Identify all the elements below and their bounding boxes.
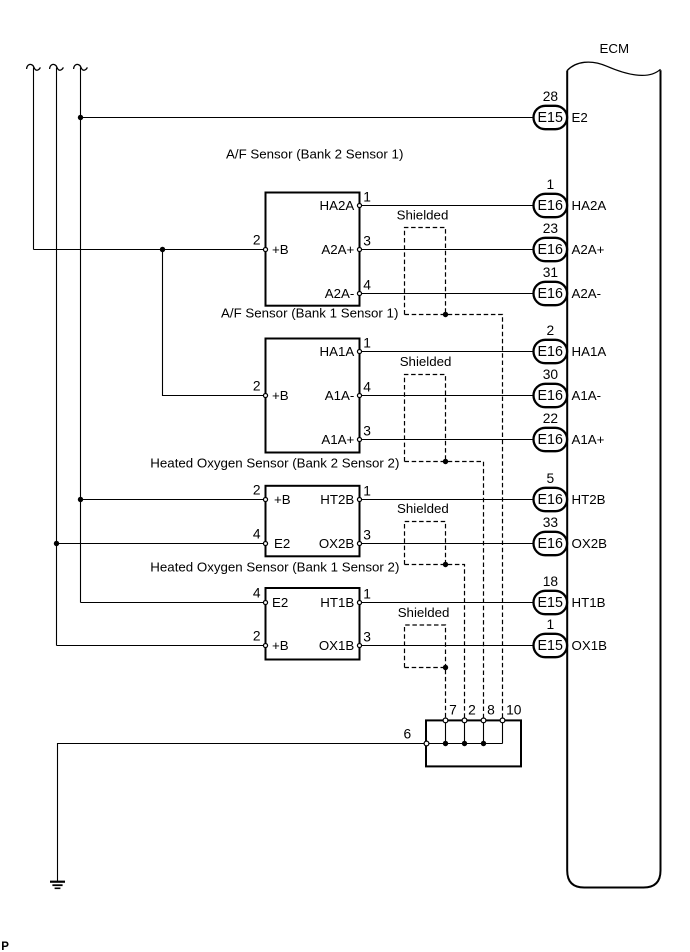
svg-text:E16: E16 xyxy=(537,344,562,360)
svg-text:OX1B: OX1B xyxy=(319,638,355,653)
svg-text:1: 1 xyxy=(547,177,555,192)
svg-text:HA2A: HA2A xyxy=(572,198,607,213)
ECM torn-top wavy edge xyxy=(567,62,660,75)
wire HA1A xyxy=(360,351,534,353)
pin circle HT1B xyxy=(357,600,361,604)
pin circle E2 B1S2 xyxy=(263,600,267,604)
shield box 1 (A/F B2S1) xyxy=(405,228,446,315)
connector pin 8 stub xyxy=(483,720,485,743)
svg-text:E16: E16 xyxy=(537,198,562,214)
svg-text:3: 3 xyxy=(363,234,371,249)
svg-text:A2A+: A2A+ xyxy=(321,242,354,257)
ECM pin E16-22 A1A+ xyxy=(534,411,605,451)
pin circle A1A- xyxy=(357,393,361,397)
node bus/pin8 xyxy=(481,741,486,746)
ECM body outline xyxy=(567,70,660,887)
shield 3 drain run xyxy=(405,565,465,721)
svg-text:HT1B: HT1B xyxy=(320,595,354,610)
ECM pin E16-23 A2A+ xyxy=(534,221,605,261)
svg-text:E2: E2 xyxy=(572,110,588,125)
pin circle HT2B xyxy=(357,497,361,501)
svg-text:5: 5 xyxy=(547,471,555,486)
svg-text:Shielded: Shielded xyxy=(400,354,452,369)
svg-text:A1A-: A1A- xyxy=(572,388,602,403)
off-page squiggle wire 3 xyxy=(74,64,88,70)
svg-text:A1A+: A1A+ xyxy=(321,432,354,447)
svg-text:HA1A: HA1A xyxy=(572,344,607,359)
svg-text:A2A-: A2A- xyxy=(572,286,602,301)
A/F sensor (Bank 1 Sensor 1) box xyxy=(266,339,360,453)
svg-text:A1A-: A1A- xyxy=(325,388,355,403)
shield 1 drain run xyxy=(405,315,503,721)
A/F sensor (Bank 2 Sensor 1) box xyxy=(266,193,360,306)
connector pin 10 stub xyxy=(502,720,504,743)
shield junction connector box xyxy=(426,720,521,766)
ECM pin E16-1 HA2A xyxy=(534,177,607,217)
pin circle +B B1S2 xyxy=(263,643,267,647)
wire W3 vertical xyxy=(80,68,82,603)
connector pin 7 xyxy=(443,718,448,723)
ECM pin E16-33 OX2B xyxy=(534,515,608,555)
wire A2A+ xyxy=(360,249,534,251)
svg-text:Heated Oxygen Sensor (Bank 2 S: Heated Oxygen Sensor (Bank 2 Sensor 2) xyxy=(150,456,399,471)
Heated oxygen sensor (Bank 2 Sensor 2) box xyxy=(266,486,360,557)
svg-text:E15: E15 xyxy=(537,638,562,654)
node junction W3/E2 row xyxy=(78,115,83,120)
svg-text:HT1B: HT1B xyxy=(572,595,606,610)
svg-text:E16: E16 xyxy=(537,286,562,302)
node shield 3 drain xyxy=(443,562,448,567)
wire W2 vertical xyxy=(56,68,58,646)
node bus/pin7 xyxy=(443,741,448,746)
svg-text:+B: +B xyxy=(274,492,291,507)
connector pin 2 xyxy=(462,718,467,723)
node bus/pin2 xyxy=(462,741,467,746)
svg-text:A2A+: A2A+ xyxy=(572,242,605,257)
ECM pin E15-28 E2 xyxy=(534,89,588,129)
shield 2 drain run xyxy=(405,462,484,721)
svg-text:P: P xyxy=(1,941,9,952)
connector pin 7 stub xyxy=(445,720,447,743)
svg-text:HT2B: HT2B xyxy=(572,492,606,507)
shield 4 drain run xyxy=(405,668,446,721)
ECM pin E15-1 OX1B xyxy=(534,617,608,657)
svg-text:ECM: ECM xyxy=(600,41,630,56)
wire HT2B xyxy=(360,499,534,501)
svg-text:HT2B: HT2B xyxy=(320,492,354,507)
svg-text:4: 4 xyxy=(253,586,261,601)
svg-text:A2A-: A2A- xyxy=(325,286,355,301)
pin circle OX2B xyxy=(357,541,361,545)
pin circle +B B1S1 xyxy=(263,393,267,397)
off-page squiggle wire 2 xyxy=(50,64,64,70)
wire E2 row to ECM E15 xyxy=(81,117,534,119)
svg-text:1: 1 xyxy=(363,336,371,351)
svg-text:E16: E16 xyxy=(537,388,562,404)
svg-text:Shielded: Shielded xyxy=(398,605,450,620)
node junction +B branch xyxy=(160,247,165,252)
svg-text:E15: E15 xyxy=(537,110,562,126)
ECM pin E15-18 HT1B xyxy=(534,574,606,614)
svg-text:OX2B: OX2B xyxy=(319,536,355,551)
pin circle A2A- xyxy=(357,291,361,295)
pin circle A1A+ xyxy=(357,437,361,441)
svg-text:1: 1 xyxy=(363,587,371,602)
svg-text:HA1A: HA1A xyxy=(320,344,355,359)
wire +B row to A/F sensor B2S1 xyxy=(34,249,266,251)
wire +B row HO2S B2S2 xyxy=(81,499,266,501)
svg-text:+B: +B xyxy=(272,388,289,403)
svg-text:A/F Sensor (Bank 1 Sensor 1): A/F Sensor (Bank 1 Sensor 1) xyxy=(221,306,398,321)
svg-text:33: 33 xyxy=(543,515,559,530)
wire A1A+ xyxy=(360,439,534,441)
shield box 3 (HO2S B2S2) xyxy=(405,522,446,565)
ECM pin E16-30 A1A- xyxy=(534,367,602,407)
svg-text:Shielded: Shielded xyxy=(397,501,449,516)
svg-text:8: 8 xyxy=(487,703,495,718)
svg-text:Shielded: Shielded xyxy=(397,208,449,223)
svg-text:Heated Oxygen Sensor (Bank 1 S: Heated Oxygen Sensor (Bank 1 Sensor 2) xyxy=(150,560,399,575)
svg-text:3: 3 xyxy=(363,630,371,645)
connector inner bus wire xyxy=(426,743,502,745)
wire E2 row HO2S B2S2 xyxy=(57,543,266,545)
svg-text:2: 2 xyxy=(253,483,261,498)
wire E2 row HO2S B1S2 xyxy=(81,602,266,604)
shield box 4 (HO2S B1S2) xyxy=(405,625,446,668)
svg-text:31: 31 xyxy=(543,265,558,280)
node junction W2/E2 HO2S B2S2 xyxy=(54,541,59,546)
pin circle E2 B2S2 xyxy=(263,541,267,545)
svg-text:28: 28 xyxy=(543,89,559,104)
svg-text:4: 4 xyxy=(363,380,371,395)
svg-text:3: 3 xyxy=(363,528,371,543)
shield box 2 (A/F B1S1) xyxy=(405,375,446,462)
pin circle HA1A xyxy=(357,349,361,353)
svg-text:E16: E16 xyxy=(537,536,562,552)
svg-text:23: 23 xyxy=(543,221,559,236)
pin circle HA2A xyxy=(357,203,361,207)
svg-text:6: 6 xyxy=(404,727,412,742)
svg-text:3: 3 xyxy=(363,424,371,439)
ECM pin E16-5 HT2B xyxy=(534,471,606,511)
svg-text:HA2A: HA2A xyxy=(320,198,355,213)
svg-text:2: 2 xyxy=(253,233,261,248)
svg-text:A1A+: A1A+ xyxy=(572,432,605,447)
wire HT1B xyxy=(360,602,534,604)
svg-text:OX1B: OX1B xyxy=(572,638,608,653)
pin circle +B B2S2 xyxy=(263,497,267,501)
svg-text:10: 10 xyxy=(506,703,522,718)
connector pin 6 xyxy=(424,741,429,746)
connector pin 10 xyxy=(500,718,505,723)
ground xyxy=(50,882,65,889)
wire +B branch down to A/F sensor B1S1 xyxy=(163,250,266,396)
svg-text:1: 1 xyxy=(363,484,371,499)
svg-text:2: 2 xyxy=(253,379,261,394)
svg-text:2: 2 xyxy=(468,703,476,718)
svg-text:1: 1 xyxy=(547,617,555,632)
svg-text:1: 1 xyxy=(363,190,371,205)
pin circle A2A+ xyxy=(357,247,361,251)
node shield 2 drain xyxy=(443,459,448,464)
svg-text:22: 22 xyxy=(543,411,558,426)
svg-text:18: 18 xyxy=(543,574,559,589)
svg-text:7: 7 xyxy=(449,703,457,718)
svg-text:E2: E2 xyxy=(272,595,288,610)
wire OX2B xyxy=(360,543,534,545)
connector pin 8 xyxy=(481,718,486,723)
svg-text:30: 30 xyxy=(543,367,559,382)
node shield 4 drain xyxy=(443,665,448,670)
svg-text:E16: E16 xyxy=(537,432,562,448)
svg-text:OX2B: OX2B xyxy=(572,536,608,551)
ECM pin E16-31 A2A- xyxy=(534,265,602,305)
svg-text:A/F Sensor (Bank 2 Sensor 1): A/F Sensor (Bank 2 Sensor 1) xyxy=(226,147,403,162)
svg-text:4: 4 xyxy=(363,278,371,293)
svg-text:2: 2 xyxy=(253,629,261,644)
node shield 1 drain xyxy=(443,312,448,317)
svg-text:4: 4 xyxy=(253,527,261,542)
wire W1 vertical (+B feed) xyxy=(33,68,35,250)
svg-text:E16: E16 xyxy=(537,492,562,508)
pin circle +B B2S1 xyxy=(263,247,267,251)
off-page squiggle wire 1 xyxy=(27,64,41,70)
connector pin 2 stub xyxy=(464,720,466,743)
wire HA2A xyxy=(360,205,534,207)
svg-text:+B: +B xyxy=(272,638,289,653)
wire ground run from connector pin 6 xyxy=(58,744,427,882)
wire +B row HO2S B1S2 xyxy=(57,645,266,647)
wire OX1B xyxy=(360,645,534,647)
svg-text:E15: E15 xyxy=(537,595,562,611)
wire A1A- xyxy=(360,395,534,397)
node junction W3/+B HO2S B2S2 xyxy=(78,497,83,502)
svg-text:E2: E2 xyxy=(274,536,290,551)
ECM pin E16-2 HA1A xyxy=(534,323,607,363)
svg-text:E16: E16 xyxy=(537,242,562,258)
pin circle OX1B xyxy=(357,643,361,647)
svg-text:2: 2 xyxy=(547,323,555,338)
Heated oxygen sensor (Bank 1 Sensor 2) box xyxy=(266,588,360,660)
wire A2A- xyxy=(360,293,534,295)
svg-text:+B: +B xyxy=(272,242,289,257)
